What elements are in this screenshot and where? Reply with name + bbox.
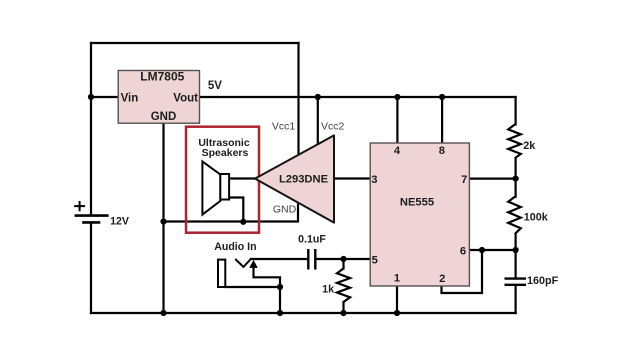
wire jack to capacitor — [251, 258, 307, 260]
svg-text:3: 3 — [371, 174, 377, 186]
svg-text:5: 5 — [372, 254, 378, 266]
audio jack J1 — [218, 259, 251, 287]
junction node Vcc2 on 5V rail — [315, 94, 321, 100]
capacitor C2 160pF — [505, 279, 527, 285]
wire left rail — [90, 43, 92, 215]
wire Vcc1 drop — [297, 43, 299, 156]
resistor R2 100k — [508, 197, 521, 234]
svg-text:4: 4 — [394, 145, 401, 157]
junction node pin 8 on 5V rail — [439, 94, 445, 100]
wire pin 2 loop — [442, 250, 483, 293]
wire bottom rail — [91, 312, 516, 314]
svg-text:12V: 12V — [110, 215, 129, 227]
svg-text:Speakers: Speakers — [202, 147, 249, 159]
wire pin 8 — [441, 97, 443, 143]
svg-text:Vcc1: Vcc1 — [272, 120, 296, 132]
svg-text:1k: 1k — [322, 283, 335, 295]
junction node pin 1 bottom — [394, 310, 400, 316]
svg-text:6: 6 — [460, 246, 466, 258]
junction node pin 4 on 5V rail — [394, 94, 400, 100]
op-amp U2 L293DNE — [255, 135, 334, 222]
svg-text:Audio In: Audio In — [214, 241, 256, 253]
wire pin 6 — [470, 249, 515, 251]
junction node 1k bottom — [340, 310, 346, 316]
wire pin 7 — [470, 178, 515, 180]
jack tip arrow — [249, 260, 258, 268]
wire battery negative — [90, 223, 92, 313]
svg-text:GND: GND — [151, 111, 177, 123]
junction node pin 7 — [513, 176, 519, 182]
timer U3 NE555 — [370, 143, 469, 286]
junction node on Vin rail — [88, 94, 94, 100]
junction node jack sleeve — [277, 284, 283, 290]
wire 5V rail — [200, 96, 516, 98]
svg-text:Vout: Vout — [173, 92, 198, 104]
battery BT1 12V — [74, 201, 109, 222]
wire pin 4 — [396, 97, 398, 143]
wire 160pF top lead — [514, 250, 516, 278]
svg-text:160pF: 160pF — [527, 275, 559, 287]
wire speaker output — [229, 177, 255, 179]
speaker LS1 — [202, 162, 229, 215]
wire Vin — [91, 96, 118, 98]
svg-text:0.1uF: 0.1uF — [298, 233, 326, 245]
wire pin 1 — [396, 286, 398, 313]
svg-text:2k: 2k — [523, 140, 536, 152]
wire 2k top lead — [514, 97, 516, 125]
wire jack sleeve — [225, 286, 280, 288]
svg-text:100k: 100k — [524, 212, 549, 224]
svg-text:2: 2 — [439, 273, 445, 285]
ultrasonic speakers enclosure (red box) — [186, 127, 259, 233]
junction node speaker return — [240, 219, 246, 225]
wire 1k bottom lead — [342, 302, 344, 313]
resistor R1 2k — [508, 125, 521, 159]
junction node GND rail / L293 gnd — [160, 218, 166, 224]
svg-text:Vin: Vin — [121, 92, 139, 104]
wire 1k top lead — [342, 259, 344, 269]
svg-text:NE555: NE555 — [400, 197, 434, 209]
svg-text:8: 8 — [439, 145, 445, 157]
svg-text:LM7805: LM7805 — [140, 70, 184, 84]
junction node jack ground bottom — [277, 310, 283, 316]
svg-text:GND: GND — [273, 203, 297, 215]
wire L293 output to pin 3 — [334, 177, 370, 179]
wire Vcc2 drop — [317, 97, 319, 145]
wire jack tip ground — [254, 267, 281, 313]
svg-text:5V: 5V — [208, 80, 222, 92]
svg-text:1: 1 — [394, 273, 400, 285]
wire 100k bottom lead — [514, 234, 516, 250]
svg-text:L293DNE: L293DNE — [279, 174, 329, 186]
junction node pin 5 — [340, 256, 346, 262]
wire pin 5 — [344, 258, 371, 260]
wire LM7805 GND rail — [162, 123, 164, 313]
wire top rail 12V — [91, 42, 299, 44]
wire 2k bottom lead — [514, 158, 516, 196]
wire L293 GND — [164, 202, 299, 222]
junction node pin 6 right rail — [513, 247, 519, 253]
junction node GND rail bottom — [160, 310, 166, 316]
junction node pin 2-6 — [479, 247, 485, 253]
wire speaker return — [229, 198, 243, 222]
resistor R3 1k — [337, 269, 350, 303]
regulator U1 LM7805 — [118, 71, 199, 124]
wire 160pF bottom lead — [514, 286, 516, 314]
capacitor C1 0.1uF — [308, 249, 315, 270]
wire capacitor to pin 5 — [316, 258, 343, 260]
svg-text:7: 7 — [461, 174, 467, 186]
svg-text:Vcc2: Vcc2 — [321, 120, 345, 132]
